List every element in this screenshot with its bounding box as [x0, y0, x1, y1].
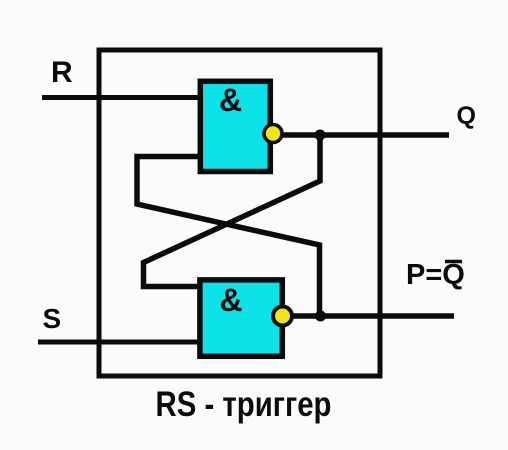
svg-text:&: &	[219, 82, 242, 118]
svg-text:P=Q: P=Q	[406, 259, 465, 291]
svg-text:Q: Q	[457, 102, 476, 130]
svg-text:S: S	[43, 303, 62, 334]
svg-text:&: &	[220, 282, 243, 318]
svg-text:R: R	[51, 56, 73, 89]
svg-text:RS - триггер: RS - триггер	[156, 385, 332, 424]
